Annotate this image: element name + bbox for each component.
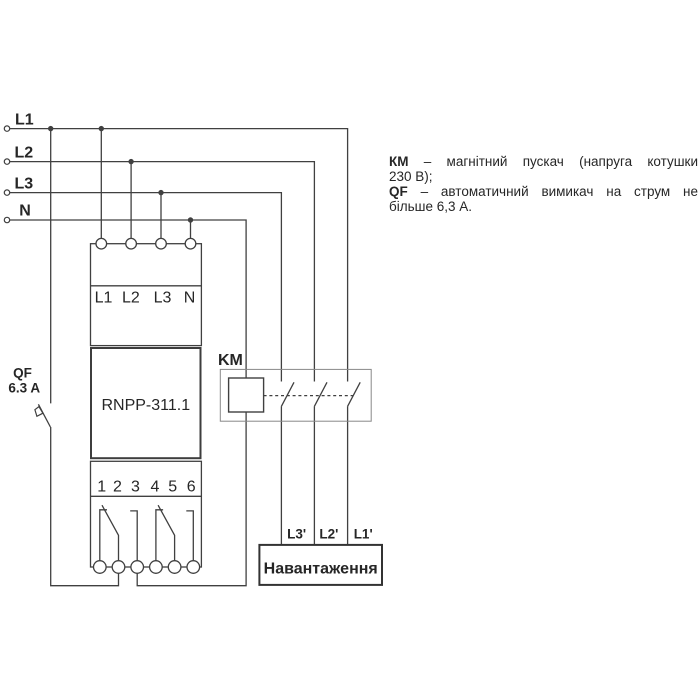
svg-text:L2': L2' <box>319 527 338 542</box>
svg-text:L2: L2 <box>122 290 140 307</box>
svg-text:1: 1 <box>97 479 106 496</box>
svg-text:KM: KM <box>218 352 243 369</box>
svg-text:Навантаження: Навантаження <box>264 561 378 578</box>
svg-text:L1': L1' <box>354 527 373 542</box>
svg-text:2: 2 <box>113 479 122 496</box>
svg-text:RNPP-311.1: RNPP-311.1 <box>101 397 190 414</box>
svg-text:L3': L3' <box>287 527 306 542</box>
svg-text:L3: L3 <box>154 290 172 307</box>
svg-text:QF: QF <box>13 365 32 380</box>
svg-text:4: 4 <box>151 479 160 496</box>
svg-text:N: N <box>184 290 196 307</box>
svg-text:N: N <box>19 203 31 220</box>
svg-text:L1: L1 <box>15 112 34 129</box>
svg-text:6.3 A: 6.3 A <box>8 381 40 396</box>
svg-text:6: 6 <box>187 479 196 496</box>
svg-text:L1: L1 <box>95 290 113 307</box>
svg-text:L2: L2 <box>15 145 34 162</box>
svg-text:5: 5 <box>168 479 177 496</box>
svg-text:3: 3 <box>131 479 140 496</box>
svg-text:L3: L3 <box>15 176 34 193</box>
